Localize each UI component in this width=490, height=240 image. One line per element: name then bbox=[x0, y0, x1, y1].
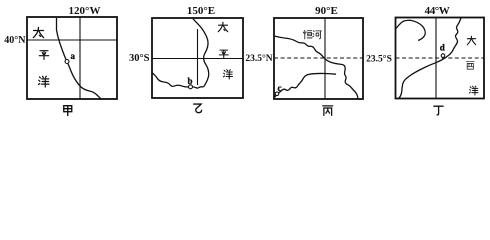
svg-text:23.5°S: 23.5°S bbox=[366, 54, 392, 65]
map frame 丙 bbox=[274, 18, 363, 99]
meridian 44W bbox=[435, 18, 437, 99]
svg-text:40°N: 40°N bbox=[4, 35, 26, 46]
svg-text:b: b bbox=[188, 76, 193, 86]
coastline map2 south bbox=[152, 72, 205, 88]
label 乙 bbox=[194, 104, 202, 113]
point d circle bbox=[441, 54, 445, 58]
河 bbox=[313, 31, 322, 39]
label 甲 bbox=[64, 106, 72, 116]
point a circle bbox=[65, 60, 69, 64]
svg-text:30°S: 30°S bbox=[129, 53, 150, 64]
west coast map3 bbox=[275, 73, 337, 97]
大 bbox=[467, 36, 476, 45]
map frame 乙 bbox=[152, 18, 243, 98]
svg-text:c: c bbox=[278, 83, 282, 93]
平 map1 bbox=[39, 51, 48, 60]
coastline map2 east bbox=[193, 19, 209, 87]
svg-text:44°W: 44°W bbox=[425, 5, 450, 17]
label 丁 bbox=[434, 106, 443, 115]
meridian 120W bbox=[79, 17, 81, 99]
svg-text:150°E: 150°E bbox=[187, 5, 215, 17]
平 map2 bbox=[219, 50, 228, 58]
label 丙 bbox=[323, 106, 333, 116]
map frame 丁 bbox=[396, 18, 485, 99]
coastline map4 bbox=[399, 18, 461, 98]
svg-text:d: d bbox=[440, 43, 445, 53]
tropic of capricorn dashed bbox=[396, 57, 485, 59]
西 bbox=[466, 62, 474, 69]
svg-text:a: a bbox=[71, 51, 76, 61]
太 map1 bbox=[33, 27, 43, 37]
svg-text:90°E: 90°E bbox=[315, 5, 338, 17]
ganges river and east coast bbox=[274, 36, 358, 99]
river loop map4 bbox=[396, 20, 425, 40]
洋 map2 bbox=[223, 70, 232, 79]
meridian 150E bbox=[197, 29, 199, 85]
parallel 40N bbox=[27, 39, 117, 41]
coastline map1 bbox=[57, 18, 101, 99]
parallel 30S bbox=[152, 58, 243, 60]
meridian 90E bbox=[324, 18, 326, 99]
tropic of cancer dashed bbox=[274, 57, 363, 59]
洋 map1 bbox=[38, 76, 49, 87]
point c circle bbox=[275, 92, 279, 96]
恒 bbox=[303, 30, 312, 39]
svg-text:120°W: 120°W bbox=[69, 5, 101, 17]
洋 map4 bbox=[469, 86, 478, 95]
太 map2 bbox=[218, 22, 227, 31]
map frame 甲 bbox=[27, 17, 117, 99]
point b circle bbox=[189, 85, 193, 89]
svg-text:23.5°N: 23.5°N bbox=[245, 53, 272, 64]
